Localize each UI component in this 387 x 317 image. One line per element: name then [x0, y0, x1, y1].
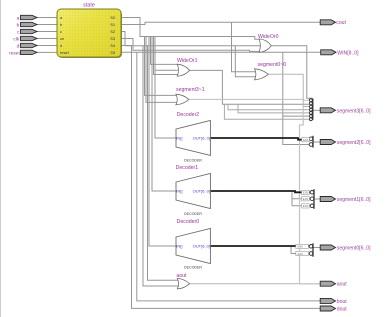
svg-text:WideOr1: WideOr1	[177, 58, 198, 64]
svg-text:cout: cout	[336, 20, 346, 26]
wire S4 down to dout port	[121, 46, 321, 309]
wire branch to joiner2 lower	[283, 116, 310, 144]
joiner segment2	[309, 136, 313, 148]
svg-text:E36: E36	[303, 197, 309, 201]
svg-text:ce: ce	[60, 36, 64, 41]
input port reset	[21, 50, 38, 54]
svg-text:segment3[6..0]: segment3[6..0]	[337, 109, 371, 115]
or-gate WideOr1	[177, 58, 198, 76]
svg-text:IN[]: IN[]	[176, 244, 182, 249]
svg-text:OUT[6..0]: OUT[6..0]	[193, 189, 210, 194]
wire drop to WideOr1 in2 mid	[155, 69, 178, 71]
output port bout	[320, 298, 335, 303]
wire branch x282.8 down to joiner3	[283, 52, 309, 116]
svg-text:c: c	[60, 29, 62, 34]
output port segment1	[320, 197, 335, 202]
svg-text:DECODER: DECODER	[184, 265, 202, 269]
svg-text:b: b	[17, 22, 20, 28]
svg-text:E36: E36	[303, 191, 309, 195]
decoder Decoder0	[176, 219, 210, 269]
svg-text:d: d	[17, 43, 20, 49]
wire branch down to bout port	[137, 52, 321, 301]
svg-text:reset: reset	[60, 50, 70, 55]
joiner2 label box	[302, 138, 310, 142]
output port cout	[320, 20, 335, 25]
bus Decoder2 OUT to joiner2	[210, 138, 309, 140]
input port b	[21, 22, 38, 26]
svg-text:IN[]: IN[]	[176, 189, 182, 194]
wire drop to Decoder1 IN	[152, 37, 177, 192]
wire joiner2 out to segment2 port	[314, 141, 321, 143]
decoder Decoder2	[176, 112, 210, 163]
svg-text:aout: aout	[337, 282, 347, 288]
wire segment3~1 output (light) to joiner3	[190, 98, 310, 101]
svg-text:OUT[6..0]: OUT[6..0]	[193, 244, 210, 249]
wire input c to state	[37, 31, 57, 33]
output port segment3	[320, 108, 335, 113]
svg-text:clk: clk	[13, 36, 19, 42]
output port dout	[320, 306, 335, 311]
wire joiner0 fan vertical	[291, 246, 310, 253]
svg-text:S4: S4	[110, 43, 116, 48]
wire S5 trunk to WIN port	[121, 51, 321, 53]
bus Decoder0 OUT to joiner0	[210, 245, 309, 247]
svg-text:S2: S2	[110, 29, 115, 34]
wire branch to segment0~0 in2	[235, 46, 255, 77]
svg-text:S3: S3	[110, 36, 115, 41]
svg-text:d: d	[60, 43, 62, 48]
wire drop to Decoder2 IN	[155, 37, 177, 139]
wire S1 to cout port	[121, 22, 321, 24]
svg-text:E36: E36	[303, 204, 309, 208]
wire input reset to state	[37, 51, 57, 53]
svg-text:aout: aout	[176, 273, 187, 279]
bus Decoder1 OUT to joiner1	[210, 191, 310, 192]
wire S3 to WideOr0 in3 trunk	[121, 39, 260, 52]
svg-text:E66: E66	[298, 252, 304, 256]
state block U1	[57, 9, 121, 57]
output port aout	[320, 281, 335, 286]
joiner1 label boxes	[302, 190, 310, 208]
or-gate aout	[176, 273, 189, 289]
wire joiner3 feed y109.8	[228, 104, 309, 110]
joiner segment0	[309, 243, 313, 256]
svg-text:IN[]: IN[]	[176, 136, 182, 141]
svg-text:reset: reset	[9, 50, 20, 56]
wire S0 staircase trunk to WideOr0 in1	[121, 18, 260, 40]
svg-text:E66: E66	[298, 245, 304, 249]
svg-text:OUT[6..0]: OUT[6..0]	[193, 136, 210, 141]
input port c	[21, 29, 38, 33]
output port segment0	[320, 245, 335, 250]
svg-text:E66: E66	[303, 138, 309, 142]
wire input b to state	[37, 24, 57, 26]
wire joiner0 out to segment0 port	[314, 247, 321, 249]
svg-text:DECODER: DECODER	[184, 158, 202, 162]
or-gate segment3~1	[176, 87, 205, 105]
wire drop to WideOr1 in2	[154, 37, 179, 75]
svg-text:segment1[6..0]: segment1[6..0]	[337, 197, 371, 203]
svg-text:Decoder2: Decoder2	[177, 112, 200, 118]
svg-text:bout: bout	[337, 299, 347, 305]
svg-text:S5: S5	[110, 50, 115, 55]
svg-text:DECODER: DECODER	[184, 212, 202, 216]
wire input clk to state	[37, 38, 57, 40]
wire S2 to WideOr0 in2 trunk	[121, 32, 260, 46]
svg-text:segment2[6..0]: segment2[6..0]	[337, 140, 371, 146]
svg-text:segment0~0: segment0~0	[258, 62, 287, 68]
wire drop to segment3~1 in1	[145, 37, 177, 96]
wire input d to state	[37, 45, 57, 47]
svg-text:state: state	[83, 2, 95, 8]
wire branch down to aout in1	[148, 46, 179, 280]
output port segment2	[320, 140, 335, 145]
wire cout branch down to segment0~0 in1	[232, 22, 256, 72]
wire aout gate output	[190, 283, 300, 285]
svg-text:WIN[8..0]: WIN[8..0]	[337, 50, 359, 56]
svg-text:Decoder0: Decoder0	[177, 219, 200, 225]
svg-text:segment3~1: segment3~1	[176, 87, 205, 93]
svg-text:Decoder1: Decoder1	[176, 165, 199, 171]
state block shadow	[58, 10, 122, 58]
joiner segment3	[309, 99, 312, 121]
wire joiner1 out to segment1 port	[314, 198, 321, 200]
output port WIN	[321, 50, 336, 55]
wire aout port feed	[300, 283, 321, 285]
joiner segment1	[310, 189, 314, 209]
svg-text:a: a	[17, 16, 20, 21]
wire drop to WideOr1 in1	[151, 37, 179, 65]
input port clk	[21, 36, 38, 40]
wire segment0~0 output corner down (light)	[268, 74, 309, 106]
decoder Decoder1	[176, 165, 211, 216]
wire joiner3 feed y119.3	[224, 104, 309, 119]
wire joiner3 feed y112.9	[238, 104, 309, 113]
input port a	[21, 15, 38, 19]
wire joiner3 out to segment3 port	[314, 109, 321, 111]
wire input a to state	[37, 17, 57, 19]
or-gate WideOr0	[258, 34, 279, 53]
or-gate segment0~0	[255, 62, 287, 80]
svg-text:b: b	[60, 22, 62, 27]
wire light vertical down to aout port	[300, 107, 304, 284]
canvas left edge	[0, 0, 2, 317]
wire drop to Decoder0 IN	[149, 37, 177, 247]
wire branch down to aout in2	[143, 46, 179, 286]
joiner0 label boxes	[296, 244, 309, 256]
wire drop to segment3~1 in2	[146, 37, 177, 103]
wire WideOr0 output corner down to joiner3 top	[271, 46, 312, 99]
wire joiner1 fan vertical	[292, 192, 311, 206]
svg-text:S0: S0	[110, 15, 116, 20]
svg-text:WideOr0: WideOr0	[258, 34, 279, 40]
input port d	[21, 43, 38, 47]
svg-text:dout: dout	[337, 307, 347, 313]
svg-text:S1: S1	[110, 22, 115, 27]
wire WideOr1 output to joiner3	[190, 70, 309, 104]
svg-text:segment0[6..0]: segment0[6..0]	[337, 246, 371, 252]
